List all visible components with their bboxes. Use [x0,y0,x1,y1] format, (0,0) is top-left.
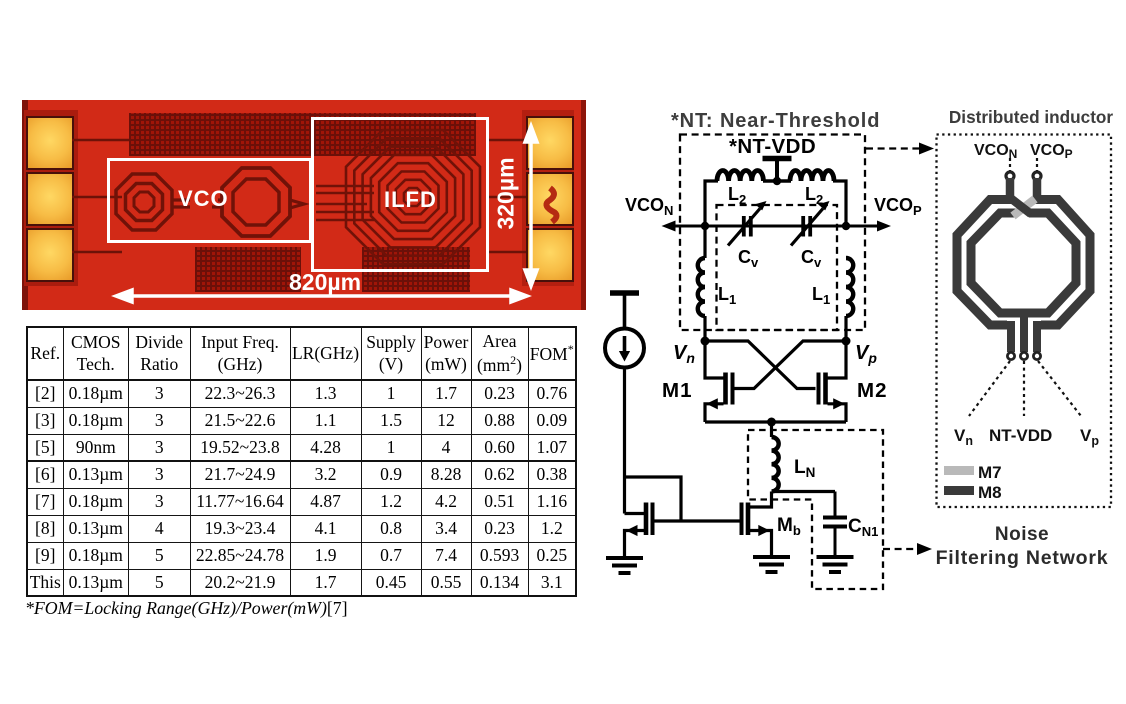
svg-text:M1: M1 [662,379,692,402]
dashed lead Vn [969,361,1010,416]
current source Ib [605,329,644,368]
winding outer left [957,200,1014,326]
wire VDD stem [775,159,779,182]
svg-text:M7: M7 [978,463,1002,482]
node Vn [701,337,710,346]
terminal VCO_P [1033,172,1041,180]
die micrograph [22,100,586,310]
svg-text:Cv: Cv [801,247,822,270]
tank dashed box [680,135,865,331]
noise filter dashed outline [748,430,883,589]
terminal Vn [1007,352,1014,359]
terminal Vp [1033,352,1040,359]
varactor Cv left plates [744,216,751,237]
wire CN1 bottom [834,527,837,558]
wire cross-couple Vp to M1 gate [735,341,847,389]
ground Mb [753,557,790,572]
wire tank top left corner [705,181,718,226]
svg-text:Noise: Noise [995,524,1049,545]
node VDD center tap [773,177,781,185]
svg-text:LN: LN [794,457,815,480]
M8 crossover [1011,199,1031,215]
svg-text:Vn: Vn [673,342,695,366]
dashed lead Vp [1038,361,1081,416]
svg-text:Cv: Cv [738,247,759,270]
bottom stub NT-VDD center tap [1020,311,1028,352]
dashed arrow to noise label [883,548,918,550]
ground mirror [606,558,643,573]
transistor mirror [625,503,653,559]
node tail [767,418,776,427]
stub terminal N to outer [1006,178,1015,201]
panel dotted box [937,135,1112,508]
legend M8 swatch [944,486,974,495]
wire L1 right to Vp [844,316,847,341]
svg-text:Distributed inductor: Distributed inductor [949,107,1114,127]
wire CN1 top [834,492,837,518]
svg-text:CN1: CN1 [848,516,878,539]
wire output line [666,225,887,228]
dashed lead NT-VDD [1023,361,1025,416]
svg-text:*NT-VDD: *NT-VDD [729,135,816,158]
wire between L2 coils [763,179,791,183]
M7 crossover [1013,199,1035,216]
node output right [842,222,850,230]
svg-text:VCON: VCON [625,195,673,218]
ground CN1 [817,557,854,572]
arrow VCO_N [662,221,676,232]
bottom stub Vn [1007,321,1015,352]
svg-text:L1: L1 [812,284,830,307]
node output left [701,222,709,230]
transistor M2 [819,341,847,422]
winding inner [971,213,1076,313]
varactor Cv left arrow [728,209,760,246]
inductor L2 right [790,171,834,181]
wire current source to mirror [623,368,626,514]
supply NT-VDD bar [763,156,792,162]
svg-text:M8: M8 [978,483,1002,502]
transistor Mb [742,503,772,558]
dashed stub VCO_P [1036,158,1038,171]
svg-text:Vp: Vp [1080,426,1099,448]
wire tank top right corner [833,181,846,226]
svg-text:L2: L2 [728,184,746,207]
svg-text:L1: L1 [718,284,736,307]
varactor dashed box [717,205,838,330]
wire LN to Mb drain [750,492,772,508]
wire tail to LN [770,422,773,437]
inductor L1 left [698,258,705,316]
wire left tank to L1 [703,226,706,258]
svg-text:Filtering Network: Filtering Network [936,547,1109,569]
svg-text:Vp: Vp [855,342,877,366]
wire cross-couple Vn to M2 gate [705,341,816,389]
arrow VCO_P [877,221,891,232]
svg-text:M2: M2 [857,379,887,402]
dashed arrow to distributed inductor [866,147,920,149]
wire diode connection [625,477,682,521]
varactor Cv right arrow [791,209,823,246]
wire L1 left to Vn [703,316,706,341]
capacitor CN1 [823,518,847,527]
inductor LN [772,437,779,491]
inductor L2 left [717,171,763,181]
transistor M1 [705,341,733,422]
svg-text:Mb: Mb [777,515,801,538]
terminal VCO_N [1006,172,1014,180]
winding outer right [1034,200,1090,326]
supply bias top bar [610,290,639,296]
wire mirror gate to Mb gate [653,519,742,522]
svg-text:VCOP: VCOP [874,195,922,218]
comparison table [26,326,577,597]
inductor L1 right [846,258,853,316]
dashed stub VCO_N [1009,158,1011,171]
bottom stub Vp [1033,321,1041,352]
svg-text:Vn: Vn [954,426,973,448]
svg-text:*NT: Near-Threshold: *NT: Near-Threshold [671,110,880,132]
varactor Cv right plates [803,216,810,237]
terminal VDD [1020,352,1027,359]
wire LN node to CN1 [772,490,836,493]
wire bias stem [623,293,627,329]
node Vp [842,337,851,346]
wire common source rail [705,420,846,423]
legend M7 swatch [944,466,974,475]
stub terminal P to outer [1033,178,1042,202]
svg-text:NT-VDD: NT-VDD [989,426,1052,445]
